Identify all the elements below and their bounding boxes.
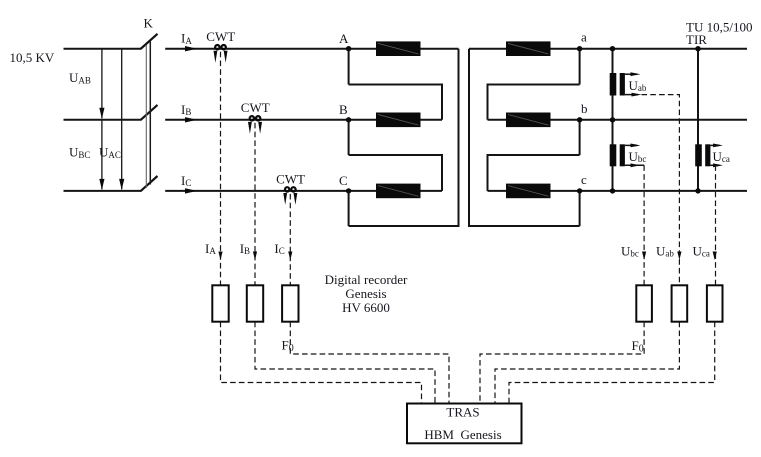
wire phase A supply segment <box>64 48 142 50</box>
TU U_ab bottom lead <box>625 94 638 96</box>
wire phase a secondary bus <box>551 48 748 50</box>
junction bus2-c <box>695 188 700 193</box>
cable U_ab to recorder <box>642 95 680 286</box>
wire bottom return to winding a <box>469 49 580 226</box>
junction bus1-b <box>610 117 615 122</box>
input channel box 4 <box>636 285 652 321</box>
svg-text:CWT: CWT <box>241 100 270 115</box>
TU U_ab top lead <box>625 73 637 75</box>
svg-text:b: b <box>581 101 588 116</box>
primary winding A <box>376 41 421 56</box>
junction bus1-c <box>610 188 615 193</box>
svg-text:Digital recorder: Digital recorder <box>325 272 408 287</box>
junction bus1-a <box>610 46 615 51</box>
wire winding A out <box>421 48 459 50</box>
svg-text:10,5 KV: 10,5 KV <box>10 50 55 65</box>
wire node B drop <box>348 120 350 155</box>
wire phase B to winding <box>165 119 376 121</box>
wire windingA-to-C link <box>349 49 459 226</box>
secondary winding a <box>506 41 551 56</box>
node c <box>577 188 582 193</box>
CWT probe 3 coil <box>285 187 289 191</box>
wire winding b in <box>488 119 507 121</box>
cable channel 4 to TRAS <box>480 322 644 404</box>
wire phase C to winding <box>165 190 376 192</box>
wire A-to-windingB link <box>349 85 442 120</box>
primary winding B <box>376 113 421 128</box>
wire winding C out <box>421 190 443 192</box>
wire windingC-return <box>488 85 580 120</box>
wire node A drop <box>348 49 350 85</box>
node C <box>346 188 351 193</box>
TU U_bc top lead <box>625 144 637 146</box>
wire phase c secondary bus <box>551 190 748 192</box>
node b <box>577 117 582 122</box>
wire TU bus 2 <box>697 49 699 191</box>
wire phase b secondary bus <box>551 119 748 121</box>
wire TU bus 1 <box>612 49 614 191</box>
cable U_bc to recorder <box>643 165 645 285</box>
node A <box>346 46 351 51</box>
wire phase A to winding <box>165 48 376 50</box>
wire node c drop <box>579 191 581 226</box>
primary winding C <box>376 184 421 199</box>
cable arrow IA <box>218 252 222 261</box>
cable channel 6 to TRAS <box>509 322 715 404</box>
cable from CWT 2 <box>254 123 256 285</box>
cable from CWT 3 <box>289 194 291 285</box>
TRAS box <box>407 404 522 444</box>
TU U_ca bottom lead <box>710 164 719 166</box>
current arrow IC <box>185 188 197 193</box>
switch K blade phase A <box>141 34 158 49</box>
cable from CWT 1 <box>220 52 222 286</box>
cable channel 5 to TRAS <box>495 322 679 404</box>
wire winding a in <box>469 48 506 50</box>
wire windingc-return <box>488 155 580 191</box>
wire winding B out <box>421 119 443 121</box>
svg-text:Genesis: Genesis <box>345 286 386 301</box>
cable arrow U_ca <box>713 252 717 261</box>
wire winding c in <box>488 190 507 192</box>
node B <box>346 117 351 122</box>
svg-text:C: C <box>339 173 348 188</box>
voltage arrow U_AC <box>121 49 123 190</box>
transformer TU U_ca windings <box>695 144 702 166</box>
switch K blade phase C <box>141 176 158 191</box>
TU U_bc bottom lead <box>625 164 644 166</box>
switch K blade phase B <box>141 105 158 120</box>
wire node b drop <box>579 120 581 155</box>
svg-text:c: c <box>581 172 587 187</box>
junction bus2-a <box>695 46 700 51</box>
voltage arrow U_BC <box>101 120 103 190</box>
svg-text:K: K <box>144 16 154 31</box>
cable arrow IC <box>288 252 292 261</box>
wire phase C supply segment <box>64 190 142 192</box>
input channel box 3 <box>282 285 298 321</box>
wire phase B supply segment <box>64 119 142 121</box>
secondary winding b <box>506 113 551 128</box>
transformer TU U_ab windings <box>610 73 617 96</box>
voltage arrow U_AB <box>101 49 103 119</box>
cable arrow U_bc <box>642 252 646 261</box>
input channel box 5 <box>672 285 688 321</box>
svg-text:HBM Genesis: HBM Genesis <box>424 427 501 442</box>
node a <box>577 46 582 51</box>
current arrow IA <box>185 46 197 51</box>
cable U_ca to recorder <box>715 165 717 285</box>
wire node a drop <box>579 49 581 85</box>
cable channel 3 to TRAS <box>290 322 449 404</box>
current arrow IB <box>185 117 197 122</box>
CWT probe 1 coil <box>215 45 219 49</box>
input channel box 1 <box>212 285 228 321</box>
TU U_ca top lead <box>710 144 719 146</box>
svg-text:HV 6600: HV 6600 <box>342 300 390 315</box>
svg-text:CWT: CWT <box>206 29 235 44</box>
wire B-to-windingC link <box>349 155 442 191</box>
svg-text:TRAS: TRAS <box>446 405 479 420</box>
svg-text:B: B <box>339 102 348 117</box>
cable arrow U_ab <box>677 252 681 261</box>
wire node C drop <box>348 191 350 226</box>
svg-text:a: a <box>581 30 587 45</box>
secondary winding c <box>506 184 551 199</box>
cable arrow IB <box>253 252 257 261</box>
svg-text:A: A <box>339 31 349 46</box>
input channel box 6 <box>707 285 723 321</box>
svg-text:CWT: CWT <box>276 171 305 186</box>
input channel box 2 <box>247 285 263 321</box>
switch K gang bar <box>145 45 147 188</box>
svg-text:TIR: TIR <box>686 32 707 47</box>
CWT probe 2 coil <box>250 116 254 120</box>
cable channel 2 to TRAS <box>255 322 435 404</box>
transformer TU U_bc windings <box>610 144 617 166</box>
cable channel 1 to TRAS <box>221 322 422 404</box>
